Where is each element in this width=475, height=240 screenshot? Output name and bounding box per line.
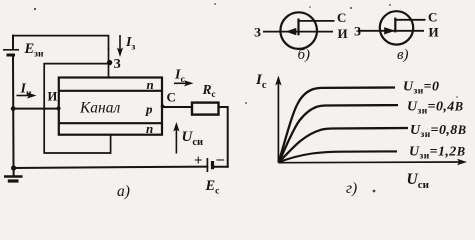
svg-text:И: И (338, 26, 348, 41)
wire battery E_c to right corner (213, 166, 228, 168)
svg-text:И: И (48, 90, 58, 104)
svg-text:n: n (146, 121, 153, 136)
svg-text:Uзи=0: Uзи=0 (403, 80, 439, 97)
svg-text:З: З (114, 56, 121, 71)
svg-text:–: – (216, 152, 225, 168)
svg-text:З: З (354, 24, 361, 39)
node source terminal blob (56, 106, 60, 110)
curve U_zi=0.8 (279, 128, 408, 162)
svg-text:Eзи: Eзи (24, 41, 44, 60)
wire left rail (battery to ground) (12, 56, 15, 169)
svg-text:Uзи=1,2В: Uзи=1,2В (409, 145, 465, 162)
svg-text:Rс: Rс (202, 82, 216, 99)
svg-text:И: И (429, 25, 439, 40)
wire top from battery to gate node (13, 36, 109, 49)
svg-text:Uси: Uси (182, 129, 204, 148)
symbol v) channel bar (394, 18, 396, 33)
svg-text:Eс: Eс (205, 178, 220, 197)
symbol b) drain lead (299, 20, 335, 22)
svg-text:Uзи=0,4В: Uзи=0,4В (407, 100, 463, 117)
symbol v) drain lead (395, 19, 425, 21)
label U_si with arrow (173, 122, 179, 154)
curve U_zi=0 (279, 88, 395, 163)
svg-text:З: З (254, 25, 261, 40)
battery E_c plates (207, 158, 212, 172)
wire source: rail to transistor left (13, 108, 59, 110)
node bottom junction (11, 165, 16, 170)
speck noise (34, 3, 458, 192)
node source junction (11, 106, 16, 111)
curve U_zi=1.2 (279, 151, 397, 162)
wire gate vertical into transistor top (108, 49, 110, 78)
battery E_zi plates (3, 50, 19, 55)
symbol b) channel bar (297, 19, 299, 36)
wire bottom rail (14, 167, 208, 168)
wire drain: transistor right to resistor (162, 106, 192, 108)
symbol b) gate lead with left arrow (263, 31, 333, 33)
graph x-axis U_si (278, 159, 467, 165)
svg-text:а): а) (117, 183, 130, 200)
svg-text:Uзи=0,8В: Uзи=0,8В (410, 123, 466, 140)
node gate Z junction (107, 60, 112, 65)
svg-text:p: p (145, 102, 153, 117)
symbol v) JFET circle (380, 11, 413, 44)
wire resistor to right corner and down (219, 107, 228, 167)
ground (4, 168, 23, 181)
svg-text:Iс: Iс (255, 72, 267, 91)
symbol b) JFET circle (280, 12, 317, 49)
svg-text:Iз: Iз (125, 35, 135, 53)
svg-text:Канал: Канал (79, 100, 120, 117)
svg-text:в): в) (397, 47, 409, 63)
svg-text:г): г) (346, 180, 357, 197)
svg-text:Iс: Iс (174, 68, 185, 86)
symbol v) gate lead with right arrow (358, 30, 424, 32)
svg-text:С: С (428, 10, 437, 25)
node drain terminal blob (161, 104, 165, 108)
resistor R_c (192, 103, 219, 115)
wire left rail upper (top wire to battery) (12, 36, 14, 49)
svg-text:Uси: Uси (407, 171, 430, 191)
svg-text:n: n (147, 77, 154, 92)
graph y-axis I_c (275, 76, 281, 163)
svg-text:б): б) (298, 47, 311, 63)
svg-text:С: С (167, 90, 176, 105)
svg-text:+: + (194, 153, 203, 169)
svg-text:С: С (337, 10, 346, 25)
wire gate-2: node Z to lower gate region (44, 64, 110, 153)
transistor structure box (59, 78, 162, 135)
curve U_zi=0.4 (279, 105, 398, 162)
